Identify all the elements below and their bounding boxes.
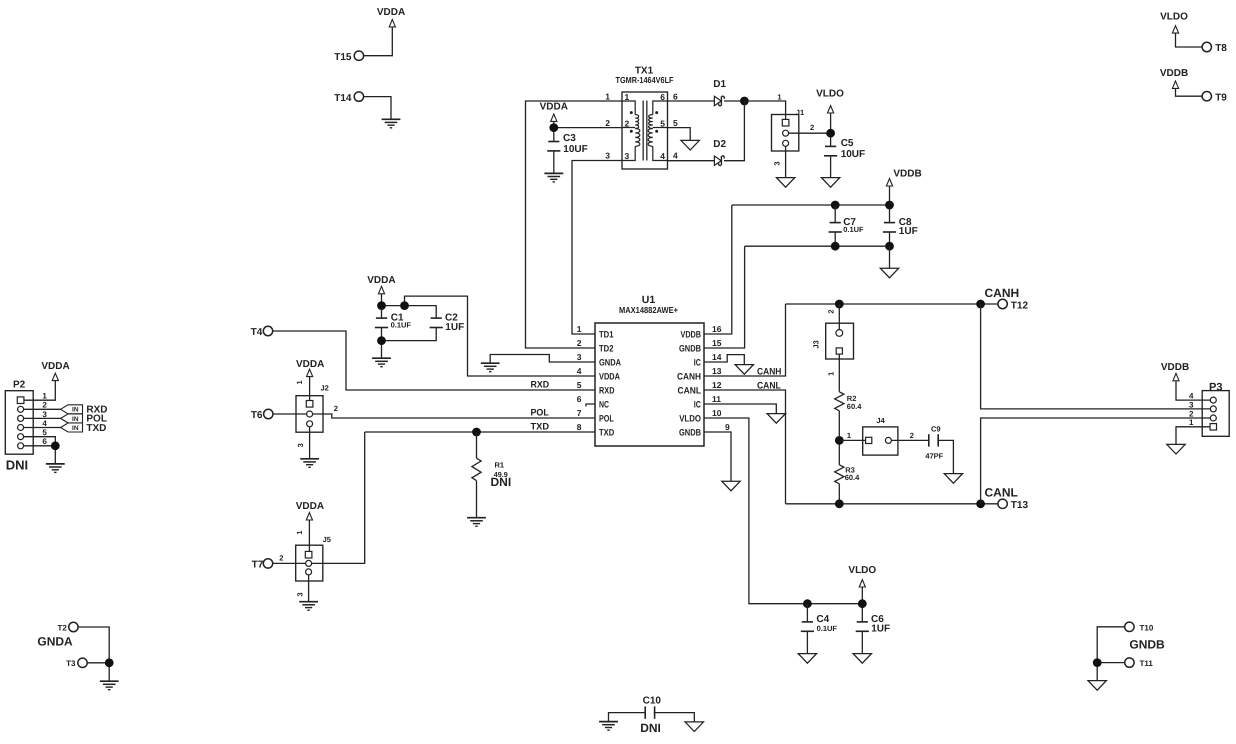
P2 pin 5 — [18, 434, 24, 440]
wire VDDA to J2 pin1 — [309, 377, 311, 401]
svg-text:CANH: CANH — [757, 366, 782, 377]
wire T7 to J5 pin2 — [273, 562, 306, 564]
svg-text:T8: T8 — [1215, 43, 1227, 54]
svg-text:C9: C9 — [931, 424, 941, 433]
svg-text:C3: C3 — [563, 133, 576, 144]
wire TX1 pin5 to ground — [668, 128, 691, 141]
svg-text:2: 2 — [577, 338, 582, 348]
svg-text:GNDB: GNDB — [679, 428, 701, 438]
power symbol VDDB — [1172, 81, 1178, 88]
svg-text:CANL: CANL — [757, 380, 781, 391]
wire VDDB rail to U1 pin16 — [704, 205, 732, 334]
connector J5 body — [296, 545, 323, 581]
svg-text:6: 6 — [660, 92, 665, 102]
junction C1/C2 ground — [377, 336, 386, 345]
terminal T10 — [1125, 622, 1134, 631]
transformer TX1 left winding — [622, 101, 640, 161]
svg-text:POL: POL — [531, 408, 549, 419]
svg-text:47PF: 47PF — [925, 452, 943, 461]
svg-text:RXD: RXD — [599, 386, 615, 396]
ground GNDB (C10) — [685, 722, 703, 732]
ground GNDB (U1 pin11) — [767, 414, 785, 424]
wire D2 to node — [724, 101, 744, 161]
wire GNDB rail to U1 pin15 — [704, 246, 745, 348]
input flag POL — [61, 414, 83, 423]
svg-text:J3: J3 — [811, 340, 820, 348]
wire U1 pin10 VLDO to C4/C6 rail — [704, 418, 862, 604]
svg-text:14: 14 — [712, 352, 722, 362]
wire VDDA to P2 pin1 — [24, 381, 55, 401]
wire C7 bottom lead — [834, 232, 836, 246]
svg-text:VDDA: VDDA — [296, 359, 324, 370]
wire U1 pin3 GNDA to ground — [490, 355, 595, 364]
svg-text:3: 3 — [625, 151, 630, 161]
wire C3 to ground — [553, 151, 555, 173]
junction TXD/R1 — [472, 428, 481, 437]
power symbol VDDA (J2) — [307, 369, 313, 376]
J3 pin 2 (round) — [836, 330, 843, 337]
wire P3 pin1 to ground — [1176, 427, 1202, 444]
junction GNDB/C7 — [831, 242, 840, 251]
svg-text:6: 6 — [42, 437, 47, 446]
junction CANH/J3 — [835, 300, 844, 309]
svg-text:CANL: CANL — [678, 386, 702, 396]
junction R2/R3/J4 — [835, 436, 844, 445]
capacitor C4 — [801, 622, 814, 631]
svg-text:D1: D1 — [713, 79, 726, 90]
svg-text:VDDA: VDDA — [540, 101, 568, 112]
terminal T15 — [354, 51, 363, 60]
P2 pin 6 — [18, 443, 24, 449]
wire R3 to CANL rail — [838, 484, 840, 504]
terminal T8 — [1202, 42, 1211, 51]
svg-text:6: 6 — [577, 394, 582, 404]
junction VDDB/C7 — [831, 201, 840, 210]
svg-text:VDDA: VDDA — [367, 275, 395, 286]
svg-text:3: 3 — [296, 592, 305, 596]
wire VLDO node to C5 — [830, 113, 832, 146]
P2 pin 1 (square) — [17, 397, 24, 404]
svg-text:VDDA: VDDA — [377, 7, 405, 18]
ground GNDA (T14) — [382, 119, 401, 128]
svg-text:GNDB: GNDB — [679, 344, 701, 354]
svg-text:TXD: TXD — [599, 428, 615, 438]
junction VLDO/C4 — [803, 599, 812, 608]
wire CANH to J3 pin2 — [838, 304, 840, 330]
wire C1 bottom to ground — [381, 328, 383, 359]
wire VDDA node to C2 — [382, 306, 437, 318]
wire VDDA to J5 pin1 — [308, 520, 310, 552]
svg-text:IN: IN — [72, 407, 79, 414]
J3 pin 1 (square) — [836, 348, 842, 354]
wire GNDB rail — [745, 245, 890, 247]
wire C4 top lead — [806, 604, 808, 622]
transformer TX1 body — [622, 92, 668, 169]
wire J1 pin3 to ground — [785, 146, 787, 177]
wire T3 to ground — [87, 663, 109, 681]
junction T2/T3 — [105, 658, 114, 667]
terminal T2 — [69, 622, 78, 631]
svg-text:0.1UF: 0.1UF — [817, 624, 838, 633]
J1 pin 2 — [783, 130, 789, 136]
svg-text:TXD: TXD — [531, 422, 550, 433]
wire node to J1 pin1 — [744, 101, 785, 119]
capacitor C1 — [375, 318, 388, 327]
svg-text:1UF: 1UF — [871, 624, 890, 635]
wire VLDO arrow to C6 — [861, 587, 863, 622]
svg-text:2: 2 — [810, 123, 814, 132]
wire VDDB to T9 — [1176, 88, 1203, 96]
svg-text:10UF: 10UF — [563, 144, 587, 155]
wire C5 to ground — [830, 156, 832, 178]
junction VDDB/C8 — [885, 201, 894, 210]
wire VDDB arrow to C8 — [889, 186, 891, 222]
capacitor C3 — [547, 142, 560, 151]
wire TX1 pin3 to U1 TD1 — [572, 161, 622, 335]
svg-text:15: 15 — [712, 338, 722, 348]
svg-text:1: 1 — [42, 392, 47, 401]
diode D2 — [714, 156, 724, 166]
junction VDDA/C1 — [377, 301, 386, 310]
svg-text:VDDA: VDDA — [599, 372, 620, 382]
power symbol VDDA (C3) — [551, 114, 557, 121]
ground GNDA (T2/T3) — [100, 681, 119, 690]
svg-text:CANH: CANH — [985, 286, 1020, 300]
svg-text:1: 1 — [625, 92, 630, 102]
power symbol VDDA (P2) — [52, 373, 58, 380]
svg-text:2: 2 — [605, 118, 610, 128]
wire J2 pin3 to ground — [309, 427, 311, 459]
junction VLDO/C5 — [826, 129, 835, 138]
power symbol VDDA (J5) — [306, 513, 312, 520]
power symbol VDDB (C8) — [886, 179, 892, 186]
wire J5 pin3 to ground — [308, 575, 310, 602]
P3 pin 1 (square) — [1210, 424, 1216, 430]
wire R2 to R3 — [838, 411, 840, 465]
power symbol VDDB (P3) — [1173, 373, 1179, 380]
svg-text:T11: T11 — [1140, 659, 1154, 668]
svg-text:T14: T14 — [334, 93, 352, 104]
ground GNDA (P2) — [46, 464, 65, 473]
svg-text:5: 5 — [42, 428, 47, 437]
capacitor C7 — [829, 223, 842, 232]
power symbol VLDO (C5) — [828, 106, 834, 113]
svg-text:4: 4 — [1189, 392, 1194, 401]
svg-text:4: 4 — [42, 419, 47, 428]
svg-text:5: 5 — [577, 380, 582, 390]
wire TX1 pin1 to U1 TD2 — [526, 101, 623, 348]
wire CANL rail — [786, 503, 999, 505]
svg-text:T12: T12 — [1011, 300, 1029, 311]
svg-text:1: 1 — [295, 380, 304, 384]
ground GNDB (C8) — [880, 268, 898, 278]
svg-text:1: 1 — [295, 530, 304, 534]
svg-text:1UF: 1UF — [445, 322, 464, 333]
svg-text:1: 1 — [826, 372, 835, 376]
wire C10 left to GNDA — [609, 713, 646, 722]
J4 pin 2 — [885, 437, 891, 443]
wire T4 to U1 RXD — [273, 331, 595, 390]
svg-text:2: 2 — [826, 309, 835, 313]
svg-text:VLDO: VLDO — [848, 565, 876, 576]
svg-text:VLDO: VLDO — [679, 414, 701, 424]
wire junction to J4 pin1 — [839, 439, 865, 441]
svg-text:VDDB: VDDB — [681, 330, 702, 340]
P3 pin 3 — [1210, 406, 1216, 412]
connector J3 body — [826, 323, 854, 359]
svg-text:VLDO: VLDO — [816, 89, 844, 100]
svg-text:4: 4 — [673, 150, 678, 160]
wire T11 to ground — [1097, 663, 1124, 681]
svg-text:3: 3 — [773, 161, 782, 165]
junction P2 pin5/pin6 — [51, 441, 60, 450]
terminal T3 — [78, 658, 87, 667]
svg-text:IC: IC — [694, 358, 701, 368]
P2 pin 3 — [18, 415, 24, 421]
power symbol VLDO — [1172, 26, 1178, 33]
wire J4 pin2 to C9 — [891, 439, 928, 441]
connector J2 body — [296, 396, 323, 433]
terminal T13 — [998, 499, 1007, 508]
ground GNDB (J1 pin3) — [776, 178, 794, 188]
connector P2 body — [5, 391, 33, 455]
wire J2 pin2 to U1 POL — [313, 414, 595, 418]
junction CANH/P3 — [976, 300, 985, 309]
svg-text:1: 1 — [1189, 418, 1194, 427]
capacitor C2 — [430, 318, 443, 327]
terminal T4 — [263, 326, 272, 335]
svg-text:POL: POL — [599, 414, 614, 424]
svg-text:9: 9 — [725, 422, 730, 432]
ground GNDB (C9) — [944, 474, 962, 484]
wire TX1 pin6 to D1 — [668, 100, 715, 102]
svg-text:10: 10 — [712, 408, 722, 418]
wire VDDB to P3 pin4 — [1176, 381, 1202, 400]
svg-text:J4: J4 — [876, 416, 885, 425]
svg-text:VDDB: VDDB — [893, 169, 921, 180]
svg-text:NC: NC — [599, 400, 609, 410]
svg-text:J5: J5 — [323, 535, 331, 544]
svg-text:DNI: DNI — [640, 721, 661, 735]
wire U1 pin13 to CANH rail — [704, 304, 786, 376]
svg-text:C5: C5 — [841, 138, 854, 149]
junction VDDA/U1 pin4 — [400, 301, 409, 310]
wire T2 down — [78, 627, 109, 663]
junction CANL/P3 — [976, 499, 985, 508]
wire CANH to P3 pin3 — [981, 304, 1203, 409]
svg-text:IC: IC — [694, 400, 701, 410]
wire J3 pin1 to R2 — [838, 354, 840, 392]
svg-text:2: 2 — [42, 401, 47, 410]
svg-text:T3: T3 — [66, 659, 76, 668]
wire C9 to ground — [937, 440, 953, 473]
wire C10 right to GNDB — [654, 713, 695, 722]
J1 pin 3 — [783, 140, 789, 146]
wire C7 top lead — [834, 205, 836, 222]
svg-text:2: 2 — [279, 554, 283, 563]
ground GNDB (P3) — [1167, 444, 1185, 454]
transformer TX1 core — [643, 101, 647, 161]
svg-text:3: 3 — [1189, 400, 1194, 409]
svg-text:13: 13 — [712, 366, 722, 376]
P2 pin 2 — [18, 406, 24, 412]
wire U1 pin12 to CANL rail — [704, 390, 786, 504]
wire VDDA to C3 — [553, 121, 555, 141]
svg-text:DNI: DNI — [491, 475, 512, 489]
J2 pin 2 — [307, 411, 313, 417]
wire U1 pin4 VDDA to C1/C2 — [405, 296, 596, 376]
P2 pin 4 — [18, 425, 24, 431]
wire T14 to ground — [364, 97, 391, 119]
wire CANL to P3 pin2 — [981, 418, 1203, 504]
svg-text:P3: P3 — [1209, 382, 1222, 394]
wires P3 pin leads — [1202, 400, 1210, 427]
terminal T6 — [264, 409, 273, 418]
svg-text:J1: J1 — [796, 108, 804, 117]
svg-text:2: 2 — [334, 404, 338, 413]
wire U1 pin9 GNDB to ground — [704, 432, 731, 481]
J5 pin 1 (square) — [305, 551, 312, 558]
svg-text:P2: P2 — [13, 380, 26, 391]
wire C4 to ground — [806, 631, 808, 653]
resistor R3 — [835, 465, 844, 484]
svg-text:J2: J2 — [321, 384, 329, 393]
svg-text:3: 3 — [42, 410, 47, 419]
svg-text:GNDA: GNDA — [599, 358, 621, 368]
wire P2 pin2 to RXD flag — [24, 408, 61, 410]
wire R1 to ground — [476, 481, 478, 518]
svg-text:TXD: TXD — [86, 423, 106, 434]
wire VDDA arrow down to C1 — [381, 294, 383, 318]
svg-text:T13: T13 — [1011, 500, 1029, 511]
wire T15 to VDDA — [364, 27, 393, 56]
J2 pin 3 — [307, 421, 313, 427]
wire T6 to J2 pin2 — [273, 413, 307, 415]
wire C6 to ground — [861, 631, 863, 653]
ground GNDB (TX1 pin5) — [681, 140, 699, 150]
diode D1 — [714, 96, 724, 106]
terminal T14 — [354, 92, 363, 101]
svg-text:IN: IN — [72, 416, 79, 423]
wire TXD to R1 — [476, 432, 478, 458]
ground GNDB (T10/T11) — [1088, 681, 1106, 691]
wire J5 pin2 up to TXD — [312, 432, 365, 563]
wire P2 pin5 down — [24, 437, 56, 446]
power symbol VDDA — [389, 20, 395, 27]
junction GNDB/C8 — [885, 242, 894, 251]
wire P2 pin3 to POL flag — [24, 417, 61, 419]
svg-text:3: 3 — [605, 150, 610, 160]
svg-text:T7: T7 — [252, 560, 264, 571]
junction VLDO/C6 — [858, 599, 867, 608]
capacitor C10 — [645, 706, 654, 718]
P3 pin 4 — [1210, 397, 1216, 403]
svg-text:8: 8 — [577, 422, 582, 432]
svg-text:2: 2 — [1189, 409, 1194, 418]
wire CANH rail — [786, 303, 999, 305]
ground GNDA (U1 pin3) — [481, 363, 500, 372]
wire P2 pin4 to TXD flag — [24, 427, 61, 429]
svg-text:60.4: 60.4 — [847, 402, 862, 411]
svg-text:VDDA: VDDA — [296, 501, 324, 512]
svg-text:5: 5 — [673, 118, 678, 128]
svg-text:CANL: CANL — [985, 486, 1018, 500]
svg-text:GNDB: GNDB — [1129, 638, 1165, 652]
IC U1 body — [595, 323, 704, 446]
ground GNDB (U1 pin9) — [722, 481, 740, 491]
svg-text:7: 7 — [577, 408, 582, 418]
svg-text:MAX14882AWE+: MAX14882AWE+ — [619, 305, 678, 315]
terminal T12 — [998, 299, 1007, 308]
wire C8 bottom lead — [889, 232, 891, 246]
svg-text:VDDA: VDDA — [41, 361, 69, 372]
svg-text:1UF: 1UF — [899, 226, 918, 237]
svg-text:TD1: TD1 — [599, 330, 614, 340]
wire T10 down — [1097, 627, 1124, 663]
capacitor C8 — [883, 223, 896, 232]
svg-text:VDDB: VDDB — [1160, 68, 1188, 79]
J5 pin 3 — [306, 569, 312, 575]
ground GNDA (R1) — [467, 518, 486, 527]
transformer TX1 right winding — [648, 101, 667, 161]
ground GNDB (U1 pin14) — [735, 365, 753, 375]
svg-text:2: 2 — [625, 118, 630, 128]
junction T10/T11 — [1093, 658, 1102, 667]
svg-text:IN: IN — [72, 425, 79, 432]
svg-text:1: 1 — [577, 324, 582, 334]
ground GNDB (C5) — [821, 178, 839, 188]
wire U1 pin6 NC stub — [586, 404, 595, 407]
wire VDDB rail — [732, 204, 890, 206]
resistor R1 — [472, 458, 481, 480]
wire C1/C2 bottom link — [382, 328, 437, 341]
power symbol VDDA (C1) — [378, 286, 384, 293]
J2 pin 1 (square) — [306, 401, 313, 408]
wire D1 to node — [724, 100, 744, 102]
connector P3 body — [1202, 391, 1229, 437]
terminal T9 — [1202, 92, 1211, 101]
wire U1 pin14 IC to ground — [704, 355, 744, 365]
svg-text:5: 5 — [660, 118, 665, 128]
terminal T7 — [263, 559, 272, 568]
svg-text:T2: T2 — [57, 624, 67, 633]
svg-text:1: 1 — [777, 92, 781, 101]
wire TX1 pin2 to VDDA node — [554, 127, 622, 129]
svg-text:0.1UF: 0.1UF — [843, 225, 864, 234]
ground GNDA (C10) — [599, 722, 618, 731]
input flag RXD — [61, 405, 83, 414]
svg-text:C10: C10 — [643, 695, 662, 706]
svg-text:TD2: TD2 — [599, 344, 614, 354]
svg-text:VDDB: VDDB — [1161, 362, 1189, 373]
wire GNDB rail to ground — [889, 246, 891, 268]
input flag TXD — [61, 423, 83, 432]
ground GNDA (J2) — [300, 459, 319, 468]
ground GNDA (C3) — [544, 173, 563, 182]
svg-text:T9: T9 — [1215, 92, 1227, 103]
wire TX1 pin4 to D2 — [668, 160, 715, 162]
wire VLDO to T8 — [1176, 33, 1203, 47]
junction D1/D2 — [740, 97, 749, 106]
svg-text:TGMR-1464V6LF: TGMR-1464V6LF — [616, 75, 674, 85]
svg-text:60.4: 60.4 — [845, 473, 860, 482]
svg-text:12: 12 — [712, 380, 722, 390]
connector J4 body — [863, 427, 898, 455]
capacitor C5 — [824, 146, 837, 155]
svg-text:DNI: DNI — [6, 458, 28, 473]
J4 pin 1 (square) — [866, 437, 872, 443]
ground GNDA (J5) — [299, 602, 318, 611]
